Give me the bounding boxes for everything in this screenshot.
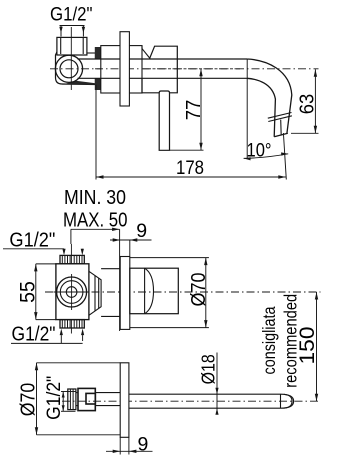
svg-text:G1/2": G1/2" bbox=[42, 376, 64, 420]
svg-text:G1/2": G1/2" bbox=[9, 229, 55, 251]
svg-text:Ø18: Ø18 bbox=[197, 354, 218, 384]
svg-text:MIN. 30: MIN. 30 bbox=[64, 187, 126, 209]
svg-text:9: 9 bbox=[138, 434, 149, 456]
svg-text:Ø70: Ø70 bbox=[188, 272, 210, 306]
svg-text:63: 63 bbox=[297, 94, 319, 114]
svg-text:recommended: recommended bbox=[281, 294, 301, 388]
svg-text:Ø70: Ø70 bbox=[17, 383, 39, 416]
svg-text:77: 77 bbox=[182, 100, 205, 121]
svg-text:10°: 10° bbox=[247, 141, 272, 162]
svg-text:consigliata: consigliata bbox=[260, 306, 280, 375]
svg-text:G1/2": G1/2" bbox=[50, 4, 93, 26]
svg-text:55: 55 bbox=[17, 281, 40, 303]
svg-text:178: 178 bbox=[176, 158, 204, 179]
svg-text:9: 9 bbox=[136, 220, 147, 242]
svg-text:MAX. 50: MAX. 50 bbox=[63, 210, 128, 232]
svg-text:G1/2": G1/2" bbox=[12, 324, 56, 346]
